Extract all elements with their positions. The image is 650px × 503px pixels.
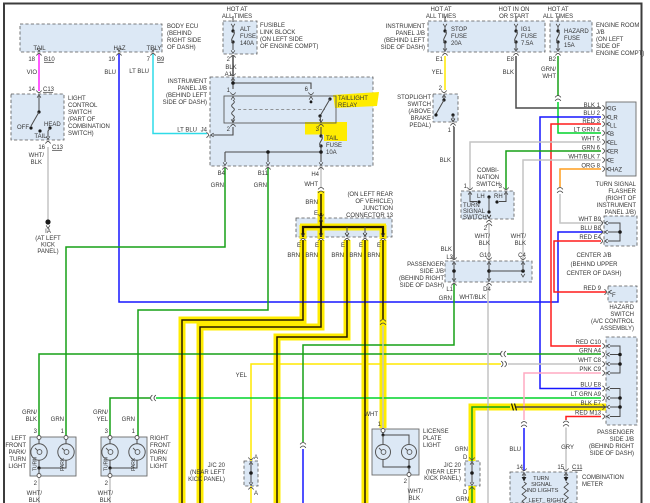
flasher pin 7 E bbox=[602, 157, 609, 162]
instrument panel J/B fuse box (STOP + IG1) bbox=[428, 21, 545, 52]
wire GRY turn signal switch pin2 to G10 bbox=[488, 224, 490, 259]
passenger J/B upper pin C4 bbox=[520, 257, 525, 264]
svg-text:GRN: GRN bbox=[455, 447, 468, 453]
svg-text:F: F bbox=[612, 293, 616, 299]
STOP fuse 20A bbox=[444, 16, 446, 22]
svg-text:OF ENGINE COMPT): OF ENGINE COMPT) bbox=[260, 44, 318, 50]
svg-text:PARK: PARK bbox=[131, 457, 137, 471]
wire BLK passenger J/B E7 to connector bbox=[516, 406, 606, 408]
svg-text:15A: 15A bbox=[564, 43, 575, 49]
internal wiring bbox=[38, 439, 40, 444]
svg-text:WHT/: WHT/ bbox=[98, 491, 114, 497]
svg-text:(ABOVE: (ABOVE bbox=[408, 109, 431, 115]
svg-text:FUSE: FUSE bbox=[521, 34, 537, 40]
svg-text:LIGHT: LIGHT bbox=[423, 443, 441, 449]
center J/B pin B9 bbox=[600, 220, 607, 225]
inline connector on PNK - BLU wire bbox=[521, 422, 527, 427]
center J/B pin B8 bbox=[600, 229, 607, 234]
svg-text:OF DASH): OF DASH) bbox=[167, 45, 196, 51]
inline connector on GRN - BLU wire bbox=[300, 443, 306, 448]
svg-text:(PART OF: (PART OF bbox=[68, 117, 96, 123]
highlight band tail fuse pin 3 bbox=[305, 122, 347, 141]
svg-text:D4: D4 bbox=[483, 287, 491, 293]
pin 2 circle bbox=[37, 474, 41, 478]
highlight band BRN wire E4 straight down bbox=[362, 240, 369, 503]
svg-text:HOT AT: HOT AT bbox=[547, 7, 568, 13]
svg-text:A1: A1 bbox=[225, 72, 233, 78]
svg-text:COMBINATION: COMBINATION bbox=[68, 124, 110, 130]
J/B pin H4 bbox=[318, 162, 323, 169]
svg-text:E: E bbox=[314, 211, 318, 217]
highlighted inline connector BLK - GRN bbox=[512, 404, 517, 411]
svg-text:(A/C CONTROL: (A/C CONTROL bbox=[591, 319, 635, 325]
svg-text:SWITCH: SWITCH bbox=[407, 102, 431, 108]
HAZARD fuse 15A bbox=[557, 16, 559, 22]
left front park/turn light box bbox=[30, 437, 76, 476]
svg-text:L1: L1 bbox=[446, 287, 453, 293]
highlight band taillight relay label bbox=[333, 92, 379, 108]
svg-text:KICK PANEL): KICK PANEL) bbox=[188, 477, 225, 483]
svg-text:WHT B9: WHT B9 bbox=[578, 217, 601, 223]
svg-text:HOT AT: HOT AT bbox=[430, 7, 451, 13]
svg-text:SIDE J/B: SIDE J/B bbox=[610, 437, 634, 443]
svg-text:WHT C8: WHT C8 bbox=[578, 358, 602, 364]
svg-text:GRN: GRN bbox=[456, 497, 469, 503]
junction connector 13 top pin E bbox=[318, 214, 323, 221]
svg-text:GRN: GRN bbox=[211, 183, 224, 189]
combination meter pin 14 bbox=[521, 468, 526, 475]
svg-text:J/C 20: J/C 20 bbox=[208, 463, 226, 469]
svg-text:J/C 20: J/C 20 bbox=[444, 463, 462, 469]
svg-text:B4: B4 bbox=[218, 171, 226, 177]
wire BLU flasher pin2 LR to passenger J/B E8 bbox=[540, 117, 601, 389]
svg-text:(BEHIND LEFT: (BEHIND LEFT bbox=[166, 93, 207, 99]
turn bulb bbox=[31, 444, 47, 460]
svg-text:BLK: BLK bbox=[31, 160, 42, 166]
wire WHT flasher pin5 EL to turn signal switch pin1 bbox=[470, 142, 601, 189]
svg-text:COMBI-: COMBI- bbox=[477, 168, 499, 174]
wire LT BLU TRLY B9 to J4 bbox=[153, 54, 207, 134]
svg-text:16: 16 bbox=[38, 145, 45, 151]
relay pin 1 bbox=[230, 92, 235, 99]
svg-text:PARK/: PARK/ bbox=[8, 450, 26, 456]
wire BLU to combination meter pin14 bbox=[523, 428, 525, 471]
svg-text:ALL TIMES: ALL TIMES bbox=[222, 14, 252, 20]
svg-text:LIGHT: LIGHT bbox=[8, 464, 26, 470]
svg-text:BLK: BLK bbox=[409, 496, 420, 502]
junction connector J/C 20 right box bbox=[465, 461, 480, 486]
svg-text:OF VEHICLE): OF VEHICLE) bbox=[355, 199, 393, 205]
body ECU pin TRLY 7 bbox=[150, 48, 155, 55]
svg-text:SIDE OF DASH): SIDE OF DASH) bbox=[400, 283, 444, 289]
svg-text:PARK/: PARK/ bbox=[150, 450, 168, 456]
svg-text:WHT/: WHT/ bbox=[29, 153, 45, 159]
svg-text:RIGHT: RIGHT bbox=[547, 498, 565, 503]
svg-text:18: 18 bbox=[28, 57, 35, 63]
svg-text:GRN/: GRN/ bbox=[22, 410, 37, 416]
inline connector on GRN/BLK - GRN wire A4 bbox=[501, 351, 506, 357]
wire BLU HAZ pin19 to center J/B B8 bbox=[119, 54, 603, 302]
junction connector J/C 20 left box bbox=[244, 461, 258, 486]
wire WHT/BLK license light pin2 down bbox=[408, 476, 410, 503]
svg-text:TURN SIGNAL: TURN SIGNAL bbox=[596, 182, 637, 188]
svg-text:YEL: YEL bbox=[97, 417, 109, 423]
junction connector 13 bottom pins E bbox=[300, 233, 305, 240]
svg-text:JUNCTION: JUNCTION bbox=[363, 206, 393, 212]
svg-text:RED 3: RED 3 bbox=[582, 119, 600, 125]
svg-text:YEL: YEL bbox=[236, 373, 248, 379]
svg-text:GRN: GRN bbox=[122, 417, 135, 423]
svg-text:INSTRUMENT: INSTRUMENT bbox=[597, 203, 637, 209]
turn signal flasher box U1 bbox=[606, 102, 636, 176]
turn signal switch RH contact bbox=[499, 193, 506, 202]
stoplight switch pin 2 bbox=[441, 90, 446, 97]
svg-text:TURN: TURN bbox=[104, 457, 110, 471]
wire WHT/BLK flasher pin7 E to passenger J/B C4 bbox=[523, 160, 601, 259]
svg-text:BLK: BLK bbox=[100, 498, 111, 503]
svg-text:FLASHER: FLASHER bbox=[608, 189, 636, 195]
svg-text:TAIL: TAIL bbox=[34, 134, 47, 140]
wire GRN/WHT HAZARD fuse B2 upper bbox=[557, 56, 559, 96]
svg-text:19: 19 bbox=[108, 57, 115, 63]
wire GRN B11 to right light pin1 bbox=[138, 168, 268, 436]
wire YEL long run to connector bbox=[251, 364, 501, 461]
svg-text:RIGHT SIDE: RIGHT SIDE bbox=[167, 38, 201, 44]
flasher pin 1 IG bbox=[602, 105, 609, 110]
svg-text:LICENSE: LICENSE bbox=[423, 429, 449, 435]
svg-text:(AT LEFT: (AT LEFT bbox=[35, 236, 61, 242]
J/B bus to B4 B11 H4 bbox=[225, 152, 321, 162]
highlight band BRN wire E3 to left bbox=[277, 240, 347, 503]
svg-text:RELAY: RELAY bbox=[338, 103, 357, 109]
svg-text:METER: METER bbox=[582, 482, 604, 488]
wire GRN below J/C 20 right to page edge bbox=[471, 486, 473, 503]
svg-text:BLK: BLK bbox=[515, 241, 526, 247]
svg-text:E: E bbox=[315, 243, 319, 249]
svg-text:HEAD: HEAD bbox=[44, 122, 61, 128]
internal wiring bbox=[109, 439, 111, 444]
wire BRN junction E1 bbox=[182, 240, 303, 503]
svg-text:BLU B8: BLU B8 bbox=[580, 226, 601, 232]
turn signal switch pin 3 bbox=[503, 187, 508, 194]
wire GRN/BLK left light pin3 to connector bbox=[39, 354, 501, 436]
turn signal switch wiper bbox=[487, 195, 490, 198]
svg-text:TAILLIGHT: TAILLIGHT bbox=[338, 96, 368, 102]
wire YEL below J/C 20 left to page edge bbox=[250, 486, 252, 503]
svg-text:J4: J4 bbox=[201, 128, 208, 134]
svg-text:(BEHIND UPPER: (BEHIND UPPER bbox=[570, 262, 618, 268]
svg-text:ER: ER bbox=[610, 150, 619, 156]
flasher pin 4 B bbox=[602, 130, 609, 135]
svg-text:BRN: BRN bbox=[287, 253, 300, 259]
pin 1 circle bbox=[135, 436, 139, 440]
svg-text:BRN: BRN bbox=[305, 200, 318, 206]
hazard switch box bbox=[608, 286, 637, 302]
svg-text:BLK E7: BLK E7 bbox=[581, 401, 602, 407]
wire PNK passenger J/B C9 down bbox=[524, 373, 601, 420]
svg-text:KICK PANEL): KICK PANEL) bbox=[424, 476, 461, 482]
svg-text:A: A bbox=[254, 455, 258, 461]
svg-text:BODY ECU: BODY ECU bbox=[167, 24, 198, 30]
passenger side J/B upper box bbox=[445, 261, 532, 282]
svg-text:BLK: BLK bbox=[479, 241, 490, 247]
svg-text:IA: IA bbox=[45, 229, 51, 235]
svg-text:10A: 10A bbox=[326, 150, 337, 156]
wire BRN junction E5 upper bbox=[382, 240, 384, 319]
right front park/turn light box bbox=[101, 437, 147, 476]
junction connector 13 internal arrow E4 bbox=[364, 227, 366, 233]
relay pin 3 bbox=[318, 119, 323, 126]
svg-text:WHT/BLK: WHT/BLK bbox=[459, 295, 486, 301]
wire GRN flasher pin6 ER to turn signal switch pin3 bbox=[506, 151, 601, 189]
svg-text:TURN: TURN bbox=[9, 457, 26, 463]
svg-text:E: E bbox=[359, 243, 363, 249]
pin 3 circle bbox=[108, 436, 112, 440]
svg-text:PASSENGER: PASSENGER bbox=[597, 430, 635, 436]
wire WHT/BLK right light pin2 down bbox=[109, 477, 111, 503]
passenger J/B lower pin C10 bbox=[602, 343, 609, 348]
instrument panel J/B main box bbox=[210, 77, 373, 166]
svg-text:PLATE: PLATE bbox=[423, 436, 442, 442]
svg-text:LEFT: LEFT bbox=[11, 436, 26, 442]
ALT fuse 140A bbox=[232, 16, 234, 22]
wire BLU down to page edge bbox=[302, 449, 304, 503]
svg-text:14: 14 bbox=[516, 465, 523, 471]
svg-text:(BEHIND: (BEHIND bbox=[167, 31, 192, 37]
park bulb bbox=[129, 444, 145, 460]
svg-text:WHT 5: WHT 5 bbox=[581, 137, 600, 143]
J/B pin B4 bbox=[222, 162, 227, 169]
svg-text:WHT: WHT bbox=[304, 182, 318, 188]
svg-text:FUSE: FUSE bbox=[326, 143, 342, 149]
svg-text:FUSE: FUSE bbox=[564, 36, 580, 42]
wire WHT to license plate light pin1 bbox=[382, 326, 384, 429]
svg-text:FUSIBLE: FUSIBLE bbox=[260, 23, 285, 29]
pin 1 circle bbox=[64, 436, 68, 440]
license plate light box bbox=[372, 429, 419, 475]
junction connector 13 internal arrow E3 bbox=[346, 227, 348, 233]
license plate light internals bbox=[381, 429, 385, 433]
svg-text:BLK: BLK bbox=[440, 158, 451, 164]
svg-text:OR START: OR START bbox=[499, 14, 529, 20]
turn signal switch box bbox=[461, 191, 514, 219]
svg-text:LINK BLOCK: LINK BLOCK bbox=[260, 30, 295, 36]
svg-text:BRN: BRN bbox=[331, 253, 344, 259]
wire BLK ALT fuse to A1 bbox=[232, 56, 234, 76]
turn signal switch pin 2 bbox=[486, 215, 491, 222]
svg-text:(BEHIND LEFT: (BEHIND LEFT bbox=[384, 38, 425, 44]
svg-text:HOT AT: HOT AT bbox=[226, 7, 247, 13]
svg-text:LIGHT: LIGHT bbox=[150, 464, 168, 470]
svg-text:WHT/BLK 7: WHT/BLK 7 bbox=[568, 155, 600, 161]
svg-text:STOP: STOP bbox=[451, 27, 467, 33]
J/B tail fuse 10A bbox=[320, 127, 322, 135]
svg-text:TAIL: TAIL bbox=[326, 136, 339, 142]
svg-text:WHT/: WHT/ bbox=[475, 234, 491, 240]
svg-text:GRN A4: GRN A4 bbox=[579, 349, 602, 355]
svg-text:HAZARD: HAZARD bbox=[609, 305, 634, 311]
svg-text:BRAKE: BRAKE bbox=[411, 116, 431, 122]
passenger J/B lower pin A9 bbox=[602, 395, 609, 400]
svg-text:FUSE: FUSE bbox=[451, 34, 467, 40]
svg-text:B11: B11 bbox=[258, 171, 269, 177]
wire WHT H4 down bbox=[320, 168, 322, 187]
wire RED passenger J/B M13 down bbox=[566, 417, 601, 421]
svg-text:ALL TIMES: ALL TIMES bbox=[543, 14, 573, 20]
svg-text:GRN 6: GRN 6 bbox=[582, 146, 601, 152]
highlight band junction connector 13 bus bbox=[300, 224, 386, 231]
passenger J/B upper pin L3 bbox=[451, 257, 456, 264]
svg-text:BLK: BLK bbox=[225, 65, 236, 71]
svg-text:TRLY: TRLY bbox=[147, 46, 162, 52]
svg-text:ASSEMBLY): ASSEMBLY) bbox=[600, 326, 634, 332]
svg-text:BLU: BLU bbox=[104, 70, 116, 76]
J/B wire A1 to relay pins 1 and 6 bbox=[233, 79, 311, 89]
svg-text:CONTROL: CONTROL bbox=[68, 103, 98, 109]
svg-text:TURN: TURN bbox=[33, 457, 39, 471]
svg-text:SWITCH: SWITCH bbox=[476, 182, 500, 188]
body ECU box bbox=[20, 24, 162, 52]
passenger J/B lower bus upper group bbox=[610, 346, 620, 373]
J/C 20 left internals bbox=[248, 457, 253, 464]
svg-text:LIGHT: LIGHT bbox=[68, 96, 86, 102]
center J/B pin E4 bbox=[600, 238, 607, 243]
svg-text:PANEL J/B): PANEL J/B) bbox=[605, 210, 636, 216]
passenger J/B lower pin C8 bbox=[602, 361, 609, 366]
svg-text:G10: G10 bbox=[479, 253, 491, 259]
pin 3 circle bbox=[37, 436, 41, 440]
svg-text:GRN: GRN bbox=[439, 296, 452, 302]
svg-text:14: 14 bbox=[28, 87, 35, 93]
wire LT GRN to passenger J/B A9 bbox=[156, 397, 601, 399]
passenger J/B upper bus bbox=[453, 263, 455, 280]
svg-text:HAZ: HAZ bbox=[114, 46, 126, 52]
svg-text:PANEL): PANEL) bbox=[37, 249, 58, 255]
flasher pin 6 ER bbox=[602, 148, 609, 153]
svg-text:WHT/: WHT/ bbox=[511, 234, 527, 240]
wire WHT/BLK left light pin2 down bbox=[38, 477, 40, 503]
wire GRN L1 to connector near kick panel bbox=[303, 284, 454, 442]
pin 2 circle bbox=[108, 474, 112, 478]
svg-text:LR: LR bbox=[610, 116, 618, 122]
meter right indicator lamp bbox=[565, 474, 567, 477]
stoplight switch pin 1 bbox=[450, 118, 455, 125]
relay pin 2 bbox=[230, 119, 235, 126]
taillight relay box bbox=[224, 96, 336, 123]
wire BRN junction E2 bbox=[200, 240, 321, 503]
wire WHT/BLK light switch to ground bbox=[47, 147, 49, 222]
light control switch pin 14 bbox=[36, 90, 41, 97]
wire YEL STOP fuse E1 to stoplight switch bbox=[444, 56, 446, 90]
wire RED center J/B E4 to hazard switch pin9 bbox=[554, 241, 606, 292]
inline connector on GRN/WHT wire bbox=[555, 96, 561, 101]
inline connector on ORG/WHT wire bbox=[557, 188, 563, 193]
svg-text:LT BLU: LT BLU bbox=[129, 69, 149, 75]
wire VIO TAIL B10 to C13 bbox=[38, 54, 40, 91]
inline connector on BRN - WHT wire license light bbox=[380, 320, 386, 325]
J/C 20 right internals bbox=[469, 457, 474, 464]
wire GRN to J/C 20 right bbox=[472, 407, 510, 461]
svg-text:WHT/: WHT/ bbox=[27, 491, 43, 497]
svg-text:RED E4: RED E4 bbox=[579, 235, 601, 241]
svg-text:(NEAR LEFT: (NEAR LEFT bbox=[190, 470, 225, 476]
svg-text:IND LIGHTS: IND LIGHTS bbox=[527, 488, 559, 494]
park bulb bbox=[58, 444, 74, 460]
svg-text:SIDE OF DASH): SIDE OF DASH) bbox=[163, 100, 207, 106]
svg-text:C4: C4 bbox=[518, 253, 526, 259]
passenger J/B lower pin E7 bbox=[602, 404, 609, 409]
light control switch pin 16 bbox=[45, 136, 50, 143]
passenger J/B upper pin L1 bbox=[451, 278, 456, 285]
ground dot IA bbox=[45, 219, 50, 224]
svg-text:20A: 20A bbox=[451, 41, 462, 47]
inline connector on RED - GRY wire bbox=[563, 421, 569, 426]
svg-text:VIO: VIO bbox=[27, 70, 38, 76]
svg-text:SWITCH: SWITCH bbox=[610, 312, 634, 318]
svg-text:7.5A: 7.5A bbox=[521, 41, 533, 47]
junction connector 13 bus bbox=[303, 227, 383, 237]
svg-text:SIDE OF DASH): SIDE OF DASH) bbox=[590, 451, 634, 457]
svg-text:(RIGHT OF: (RIGHT OF bbox=[605, 196, 636, 202]
svg-text:BLK 1: BLK 1 bbox=[584, 103, 601, 109]
svg-text:GRN/: GRN/ bbox=[541, 67, 556, 73]
svg-text:B2: B2 bbox=[549, 57, 557, 63]
svg-text:(ON LEFT SIDE: (ON LEFT SIDE bbox=[260, 37, 303, 43]
svg-text:IG: IG bbox=[610, 107, 617, 113]
svg-text:BLU 2: BLU 2 bbox=[583, 111, 600, 117]
svg-text:RED M13: RED M13 bbox=[575, 411, 602, 417]
engine room J/B box (HAZARD fuse) bbox=[550, 21, 592, 52]
svg-text:E: E bbox=[297, 243, 301, 249]
wire BRN to junction connector 13 bbox=[320, 194, 322, 216]
light control switch contacts bbox=[29, 126, 32, 129]
flasher pin 5 EL bbox=[602, 139, 609, 144]
svg-text:GRY: GRY bbox=[561, 445, 574, 451]
flasher pin 2 LR bbox=[602, 114, 609, 119]
J/B pin B11 bbox=[265, 162, 270, 169]
svg-text:PASSENGER: PASSENGER bbox=[407, 262, 445, 268]
svg-text:SWITCH: SWITCH bbox=[68, 110, 92, 116]
svg-text:GRN: GRN bbox=[51, 417, 64, 423]
passenger J/B upper pin G10 bbox=[486, 257, 491, 264]
passenger J/B lower pin M13 bbox=[602, 414, 609, 419]
svg-text:RED 9: RED 9 bbox=[583, 286, 601, 292]
svg-text:ENGINE COMPT): ENGINE COMPT) bbox=[596, 51, 644, 57]
svg-text:SWITCH): SWITCH) bbox=[68, 131, 94, 137]
passenger side J/B lower box bbox=[606, 337, 637, 425]
svg-text:E: E bbox=[610, 159, 614, 165]
wire LT GRN to flasher pin4 bbox=[558, 102, 601, 133]
turn signal switch pin 1 bbox=[467, 187, 472, 194]
J/B pin J4 bbox=[206, 132, 213, 137]
flasher pin 3 LL bbox=[602, 121, 609, 126]
svg-text:LEFT: LEFT bbox=[529, 498, 543, 503]
light control switch box bbox=[11, 94, 64, 140]
junction connector 13 box bbox=[296, 218, 392, 237]
body ECU pin HAZ 19 bbox=[116, 48, 121, 55]
wire GRN to passenger J/B A4 bbox=[507, 353, 601, 355]
svg-text:CONNECTOR 13: CONNECTOR 13 bbox=[346, 213, 394, 219]
svg-text:HAZARD: HAZARD bbox=[564, 29, 589, 35]
svg-text:ALT: ALT bbox=[240, 27, 251, 33]
svg-text:ALL TIMES: ALL TIMES bbox=[426, 14, 456, 20]
svg-text:ENGINE ROOM: ENGINE ROOM bbox=[596, 23, 639, 29]
wire BLK stoplight switch pin1 to L3 bbox=[453, 127, 455, 259]
svg-text:LL: LL bbox=[610, 124, 617, 130]
svg-text:(NEAR LEFT: (NEAR LEFT bbox=[426, 470, 461, 476]
svg-text:BRN: BRN bbox=[305, 253, 318, 259]
svg-text:STOPLIGHT: STOPLIGHT bbox=[397, 95, 431, 101]
